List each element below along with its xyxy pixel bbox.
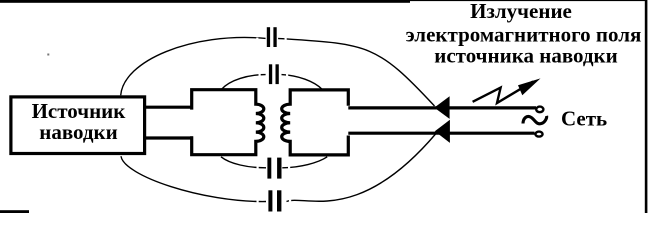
stray capacitance inner loop, top-right arc (282, 75, 323, 90)
box: interference source (11, 97, 145, 154)
capacitor C2 (top inner stray capacitance) (268, 63, 281, 85)
stray capacitance outer loop, top-left arc (121, 37, 266, 95)
stray capacitance inner loop, bottom-right arc (282, 157, 327, 168)
stray capacitance inner loop, bottom-left arc (221, 157, 266, 168)
thin top rule continuation (410, 0, 645, 1)
stray capacitance outer loop, bottom-right arc (287, 134, 437, 202)
transformer secondary block and winding L2 (282, 90, 349, 155)
capacitor C4 (bottom outer stray capacitance) (267, 189, 282, 212)
svg-text:наводки: наводки (39, 120, 118, 144)
transformer primary block and winding L1 (192, 90, 264, 155)
wire: secondary to mains, top (348, 106, 536, 109)
stray capacitance inner loop, top-left arc (222, 75, 266, 90)
svg-text:источника наводки: источника наводки (434, 43, 618, 67)
stray capacitance outer loop, bottom-left arc (121, 156, 266, 201)
right border line (645, 0, 648, 213)
svg-text:Сеть: Сеть (561, 107, 607, 131)
top border line (0, 0, 410, 3)
AC tilde symbol (523, 116, 547, 124)
terminal circle, bottom (535, 132, 542, 137)
speck (47, 54, 49, 56)
arrow head on top wire (pointing left) (434, 96, 449, 119)
terminal circle, top (536, 107, 543, 113)
svg-text:Излучение: Излучение (470, 0, 572, 23)
capacitor C3 (bottom inner stray capacitance) (266, 157, 282, 180)
wire: box to primary, top (145, 106, 193, 109)
lightning arrow (radiation symbol) (473, 82, 533, 104)
capacitor C1 (top outer stray capacitance) (266, 26, 279, 48)
arrow head on bottom wire (pointing left) (435, 120, 450, 143)
lead dash nicks (256, 38, 291, 204)
wire: box to primary, bottom (145, 136, 193, 139)
bottom-left border stub (0, 210, 29, 213)
stray capacitance outer loop, top-right arc (278, 38, 435, 106)
wire: secondary to mains, bottom (348, 132, 534, 135)
